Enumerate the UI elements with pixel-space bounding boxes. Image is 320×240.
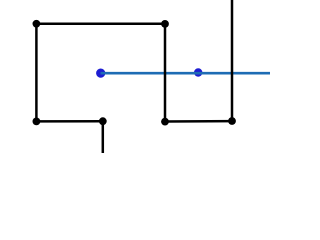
wire (blue net, horizontal) [101, 72, 271, 75]
wire B-E (middle vertical) [164, 24, 167, 122]
node E [161, 118, 169, 126]
wire D-bottom (vertical to bottom edge) [102, 121, 105, 153]
node A [33, 20, 41, 28]
node F [228, 117, 236, 125]
node B [161, 20, 169, 28]
wire E-F (bottom-right horizontal) [165, 120, 232, 123]
wire A-B (top horizontal) [36, 23, 165, 26]
wire C-D (bottom-left horizontal) [36, 120, 102, 123]
wire A-C (left vertical) [35, 24, 38, 122]
node C [33, 118, 41, 126]
node D [99, 117, 107, 125]
wire F-top (vertical to top edge) [231, 0, 234, 121]
node H (blue junction, right) [194, 68, 202, 76]
node G (blue junction, left) [96, 69, 105, 78]
